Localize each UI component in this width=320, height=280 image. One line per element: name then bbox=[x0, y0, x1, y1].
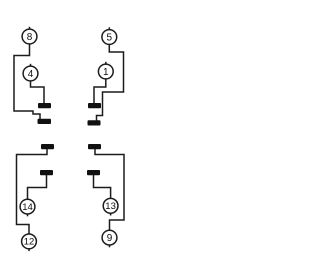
svg-text:8: 8 bbox=[27, 32, 33, 43]
svg-text:14: 14 bbox=[22, 202, 33, 213]
svg-text:1: 1 bbox=[103, 67, 109, 78]
svg-text:5: 5 bbox=[107, 33, 113, 44]
svg-text:12: 12 bbox=[24, 237, 35, 248]
svg-text:9: 9 bbox=[107, 233, 113, 244]
svg-text:4: 4 bbox=[28, 69, 34, 80]
svg-text:13: 13 bbox=[105, 201, 116, 212]
